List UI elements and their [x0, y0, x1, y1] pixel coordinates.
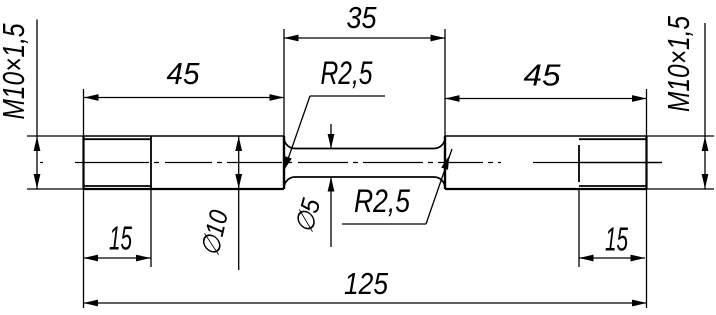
shaft bottom edge right grip	[445, 188, 647, 190]
neck top contour with fillets R2.5	[284, 138, 445, 149]
shaft bottom edge left grip	[84, 188, 285, 190]
svg-text:∅10: ∅10	[194, 207, 234, 259]
extension line left shoulder up	[283, 29, 285, 136]
extension line bottom edge rightwards	[647, 188, 715, 190]
svg-text:125: 125	[344, 266, 389, 301]
thread label M10x1,5 left dimension line	[36, 20, 38, 190]
svg-text:45: 45	[167, 56, 201, 91]
right thread runout boundary	[578, 145, 580, 182]
right thread minor line bottom	[579, 185, 646, 187]
shaft right end face	[645, 136, 647, 189]
fillet label R2,5 bottom shelf	[342, 223, 426, 225]
shaft top edge left grip	[84, 135, 285, 137]
svg-text:M10×1,5: M10×1,5	[661, 15, 696, 112]
svg-text:15: 15	[109, 220, 132, 257]
dimension line 15 left	[84, 257, 151, 259]
fillet label R2,5 top shelf	[310, 95, 385, 97]
diameter 10 dimension line	[238, 136, 240, 270]
shaft top edge right grip	[445, 135, 647, 137]
right shoulder face	[444, 136, 446, 189]
centerline dash-dot	[40, 162, 578, 164]
dimension line 15 right	[579, 257, 645, 259]
extension line shaft right end down	[646, 189, 648, 308]
extension line left thread end down	[150, 189, 152, 267]
diameter 5 dimension line lower	[330, 177, 332, 247]
extension line shaft right end up	[646, 89, 648, 136]
extension line right thread start down	[578, 189, 580, 267]
svg-text:45: 45	[524, 58, 562, 93]
svg-text:R2,5: R2,5	[321, 55, 373, 91]
dimension line 45 right	[445, 98, 647, 100]
extension line right shoulder up	[444, 29, 446, 136]
fillet label R2,5 top leader	[285, 96, 311, 169]
svg-text:15: 15	[605, 221, 628, 258]
thread label M10x1,5 right dimension line	[704, 23, 706, 189]
neck bottom contour with fillets R2.5	[284, 177, 445, 188]
left thread runout boundary	[150, 136, 152, 189]
extension line top edge rightwards	[647, 135, 715, 137]
diameter 5 dimension line upper	[330, 124, 332, 149]
svg-text:M10×1,5: M10×1,5	[0, 23, 31, 120]
svg-text:∅5: ∅5	[288, 195, 326, 236]
svg-text:35: 35	[347, 0, 378, 35]
extension line shaft left end up	[83, 89, 85, 136]
extension line shaft left end down	[83, 189, 85, 308]
centerline solid segment right	[579, 162, 662, 164]
left shoulder face	[283, 136, 285, 189]
left thread minor line top	[85, 138, 152, 140]
shaft left end face	[82, 136, 84, 189]
right thread minor line top	[579, 138, 646, 140]
svg-text:R2,5: R2,5	[354, 183, 410, 219]
dimension line 125	[84, 302, 647, 304]
extension line top edge leftwards	[27, 135, 84, 137]
extension line bottom edge leftwards	[27, 188, 84, 190]
fillet label R2,5 bottom leader	[426, 149, 452, 224]
left thread minor line bottom	[85, 185, 152, 187]
dimension line 45 left	[84, 97, 284, 99]
dimension line 35	[284, 37, 445, 39]
